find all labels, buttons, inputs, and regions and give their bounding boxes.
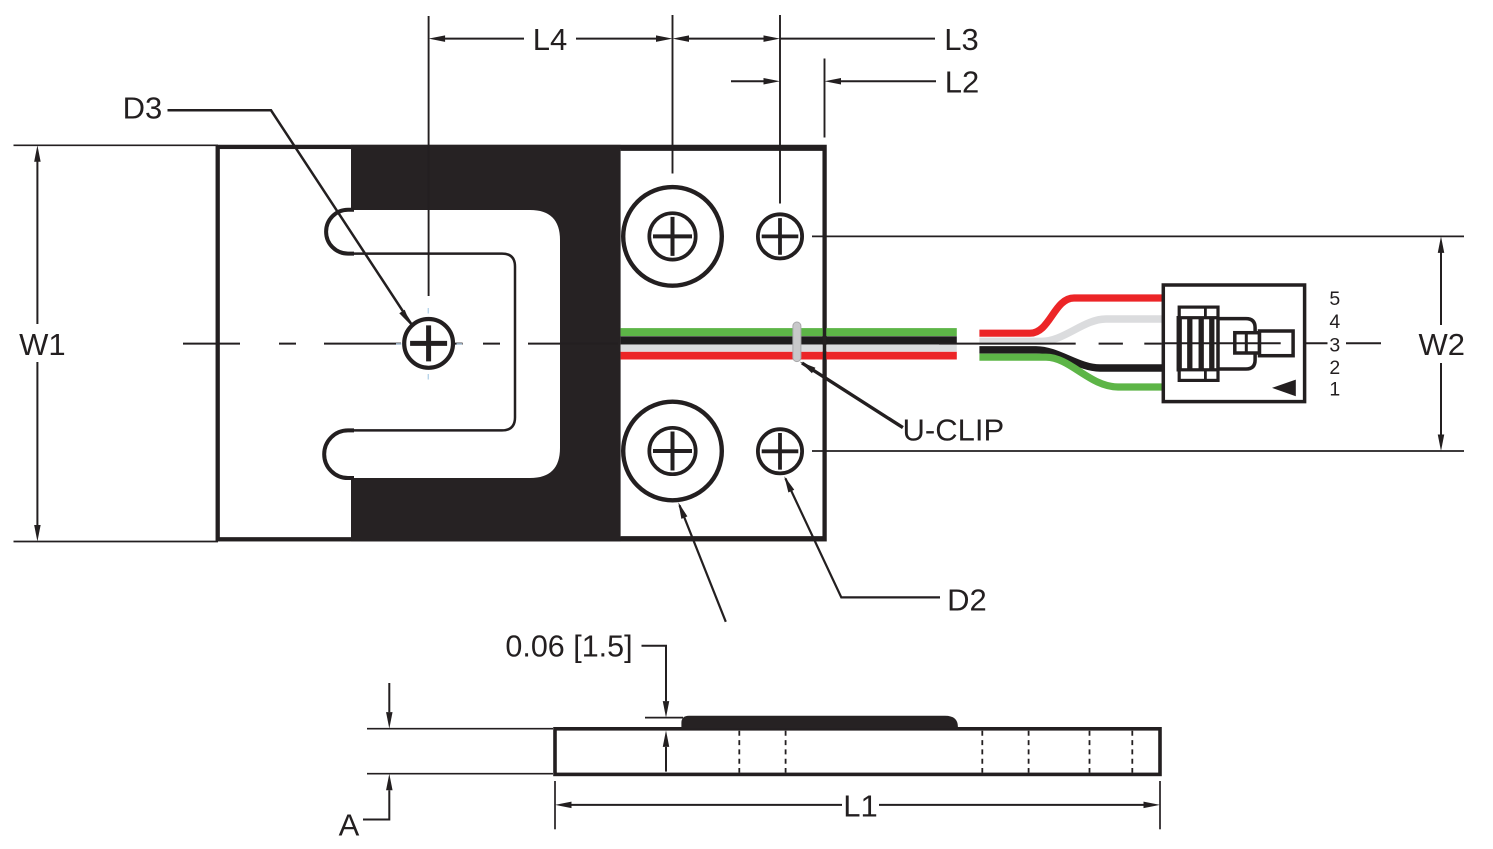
dimension L4 (429, 22, 673, 57)
inner edge line top (621, 149, 823, 151)
dimension L2 (731, 65, 979, 100)
wire red (fan-out) (979, 298, 1163, 333)
side view plate (555, 729, 1160, 775)
body outline (218, 147, 825, 539)
crimp bottom bar (1179, 370, 1218, 381)
svg-text:L2: L2 (945, 65, 979, 100)
wire green (bundle) (621, 328, 957, 336)
svg-text:5: 5 (1329, 288, 1340, 310)
u-clip part (793, 322, 801, 362)
extension line from D3 hole (428, 16, 430, 296)
hidden hole lines (dashed) (739, 731, 1132, 773)
centerline (dash-dot) (183, 343, 618, 345)
small hole upper (758, 214, 802, 258)
extension line from small hole (779, 15, 781, 204)
svg-text:A: A (339, 808, 360, 843)
dimension A (339, 683, 553, 843)
dimension 0.06 [1.5] (505, 630, 683, 772)
latch box (1235, 333, 1260, 353)
pin tab (1260, 331, 1294, 356)
svg-text:W2: W2 (1419, 327, 1466, 362)
body right edge over wires (823, 328, 827, 362)
dimension L3 (673, 22, 979, 57)
slot upper cap outline (326, 210, 354, 254)
wire green (fan-out) (979, 357, 1163, 387)
big hole lower (623, 402, 722, 501)
centerline right segments (939, 343, 1162, 345)
big hole upper (623, 187, 722, 286)
dimension W2 (1419, 236, 1466, 451)
svg-text:D2: D2 (947, 582, 987, 617)
extension line from big hole (672, 15, 674, 174)
extension line from body right edge (824, 59, 826, 138)
wire white (fan-out) (979, 319, 1163, 341)
wire black (fan-out) (979, 350, 1163, 368)
polarity triangle (1272, 380, 1296, 397)
connector box (1163, 285, 1304, 402)
label D2 with leader (781, 475, 986, 617)
crimp comb bars (1179, 316, 1212, 372)
dimension L1 (555, 781, 1160, 829)
inner edge line bottom (621, 536, 823, 538)
pin line 3 segments (1305, 342, 1381, 344)
wire black (bundle) (621, 336, 957, 344)
crimp top bar (1179, 307, 1218, 318)
W1 extension line top (14, 144, 219, 146)
W2 extension line bottom (812, 450, 1464, 452)
dimension W1 (19, 145, 66, 541)
elastomer pad (black blob with U cutout) (351, 145, 621, 542)
wire red (bundle) (621, 352, 957, 360)
hole D3 (404, 319, 453, 368)
svg-text:D3: D3 (123, 90, 163, 125)
svg-text:L3: L3 (944, 22, 978, 57)
svg-text:W1: W1 (19, 327, 66, 362)
center pin line (1163, 342, 1280, 344)
svg-text:0.06 [1.5]: 0.06 [1.5] (505, 630, 632, 664)
svg-text:3: 3 (1329, 335, 1340, 357)
svg-text:U-CLIP: U-CLIP (903, 412, 1005, 447)
svg-text:4: 4 (1329, 311, 1340, 333)
svg-text:L4: L4 (533, 22, 567, 57)
svg-text:1: 1 (1329, 379, 1340, 401)
tongue outline (350, 254, 515, 431)
plug body (1218, 319, 1255, 369)
label D3 with leader (123, 90, 414, 327)
label U-CLIP with leader (798, 359, 1004, 447)
W1 extension line bottom (14, 541, 219, 543)
W2 extension line top (812, 235, 1464, 237)
slot lower cap outline (324, 430, 354, 478)
cyan center marks at D3 (396, 308, 462, 380)
side view elastomer hump (681, 716, 958, 729)
svg-text:2: 2 (1329, 357, 1340, 379)
svg-text:L1: L1 (843, 788, 877, 823)
small hole lower (758, 429, 802, 473)
wire white (bundle) (621, 345, 957, 352)
leader from lower big hole (675, 501, 726, 622)
